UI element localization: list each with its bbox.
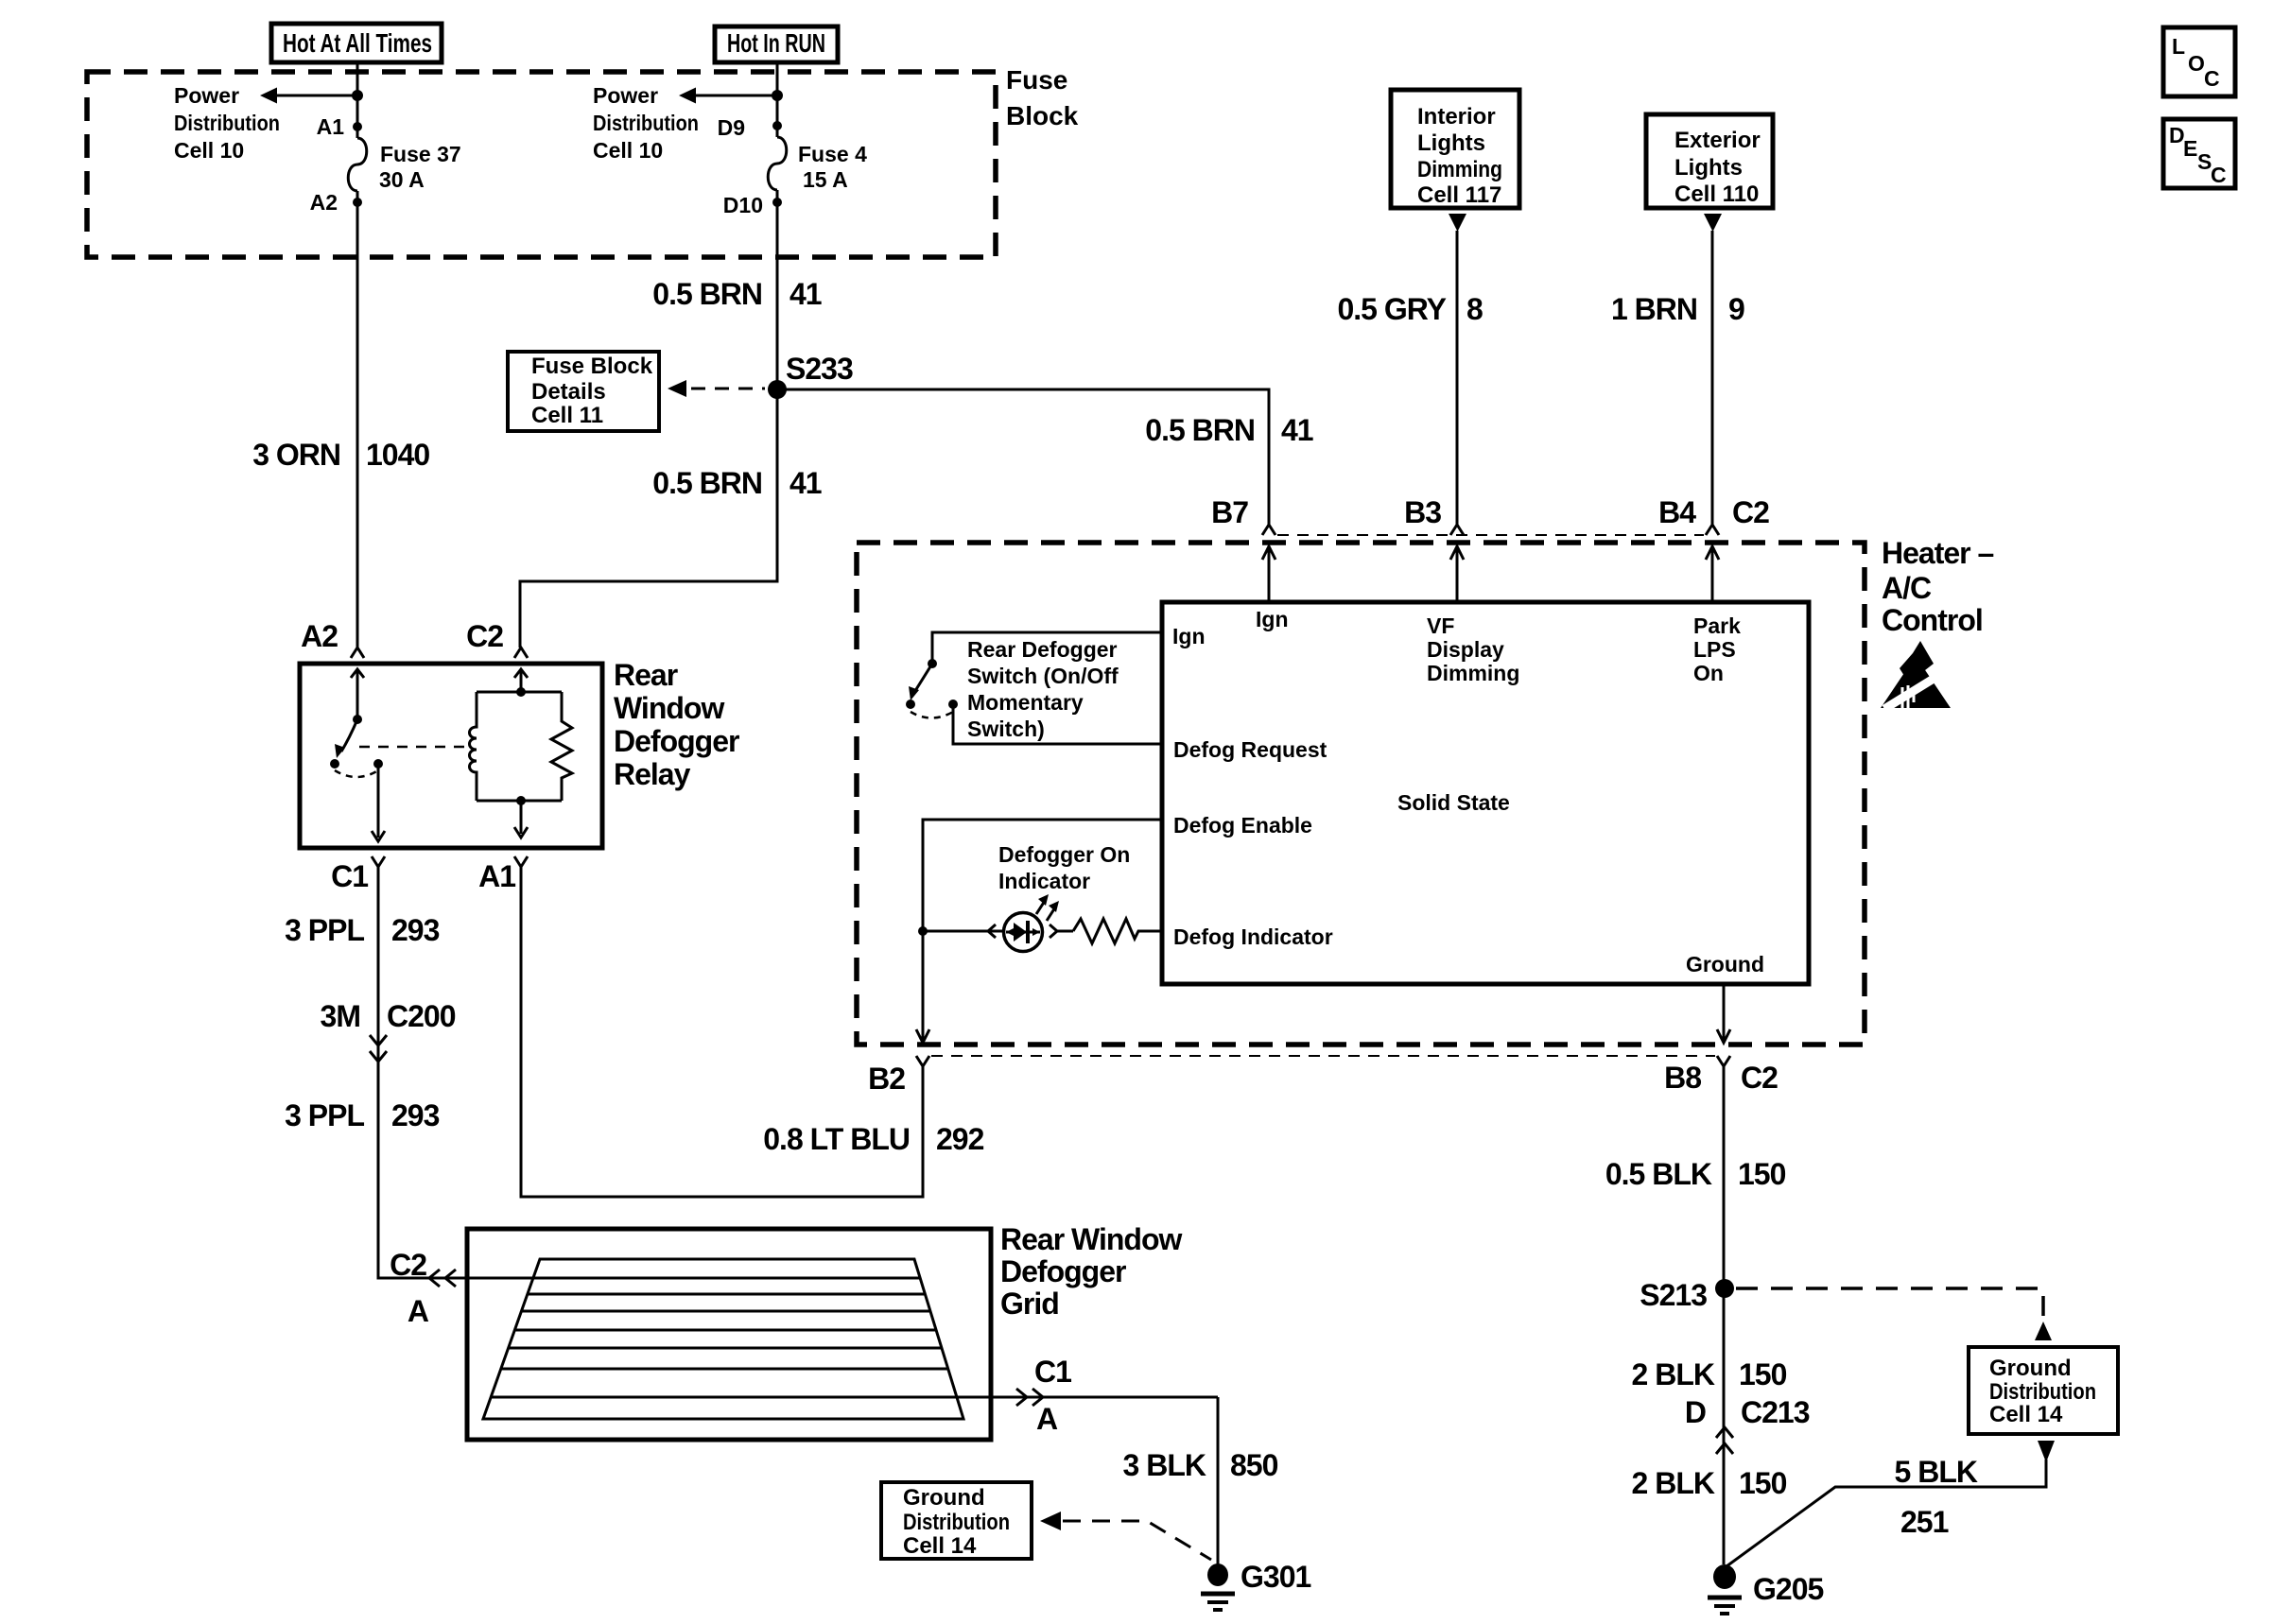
node: DESC legend box: [2163, 119, 2235, 188]
wire label 2 BLK 150 (upper): [1632, 1357, 1787, 1391]
node: Interior Lights Dimming Cell 117 callout: [1391, 90, 1519, 232]
svg-text:Cell 10: Cell 10: [593, 138, 663, 163]
wire label 0.5 BRN 41 above S233: [652, 277, 822, 311]
pin B2 connector chevron: [868, 1056, 929, 1096]
svg-text:Ign: Ign: [1172, 624, 1206, 648]
wire: interior lights dimming to B3: [1456, 231, 1459, 525]
arrows into solid state module (Ign, VF, Park): [1262, 546, 1719, 602]
fuse F4 15A: [718, 115, 867, 217]
node: Fuse Block Details callout: [508, 352, 765, 431]
svg-text:Heater –: Heater –: [1882, 536, 1994, 570]
svg-text:Rear Defogger: Rear Defogger: [967, 637, 1118, 662]
svg-text:A2: A2: [301, 619, 338, 653]
svg-text:S213: S213: [1640, 1278, 1707, 1312]
splice S233: [768, 352, 853, 399]
wire: Hot At All Times feed through fuse 37 down to relay A2: [356, 62, 359, 648]
svg-text:292: 292: [936, 1122, 984, 1156]
svg-text:150: 150: [1739, 1466, 1787, 1500]
svg-text:3 BLK: 3 BLK: [1123, 1448, 1206, 1482]
wire label 2 BLK 150 (lower): [1632, 1466, 1787, 1500]
rear defogger switch (on/off momentary): [906, 632, 1162, 744]
defogger on indicator LED and resistor: [918, 842, 1162, 952]
svg-text:Display: Display: [1427, 637, 1504, 662]
svg-text:Power: Power: [174, 83, 239, 108]
node: Hot At All Times label box: [271, 24, 442, 62]
svg-text:L: L: [2172, 34, 2185, 59]
fuse F37 30A: [310, 114, 461, 215]
relay mechanical linkage dashed: [359, 746, 467, 749]
ground G205: [1708, 1564, 1823, 1614]
svg-text:0.5 BRN: 0.5 BRN: [652, 466, 762, 500]
svg-text:Control: Control: [1882, 603, 1983, 637]
pin C1 connector chevron (relay): [331, 856, 385, 893]
node: power distribution takeoff (right): [593, 83, 783, 163]
svg-text:A/C: A/C: [1882, 571, 1932, 605]
svg-text:1040: 1040: [366, 438, 429, 472]
Heater A/C Control dashed boundary: [857, 536, 1994, 1045]
svg-text:Window: Window: [614, 691, 724, 725]
wire: Hot In RUN feed through fuse 4 down to S233 and relay C2: [520, 62, 777, 648]
rear window defogger grid box: [467, 1222, 1183, 1440]
svg-text:C: C: [2211, 163, 2227, 187]
wire: defog enable to B2: [916, 820, 1162, 1043]
svg-text:Park: Park: [1693, 613, 1741, 638]
svg-text:G205: G205: [1753, 1572, 1823, 1606]
pin B4 connector chevron, connector C2: [1658, 495, 1769, 535]
wire: S233 branch to B7: [777, 389, 1269, 525]
svg-text:A: A: [1036, 1402, 1058, 1436]
svg-text:0.5 BRN: 0.5 BRN: [652, 277, 762, 311]
wire 5 BLK 251 from ground distribution to G205: [1726, 1455, 2046, 1566]
grid element trapezoid: [483, 1259, 963, 1419]
wire label 0.8 LT BLU 292: [763, 1122, 983, 1156]
svg-text:Solid State: Solid State: [1397, 790, 1510, 815]
wire: relay C1 down to grid C2: [378, 867, 533, 1278]
svg-text:Cell 14: Cell 14: [903, 1533, 977, 1559]
relay switch contacts: [330, 669, 385, 841]
svg-text:Defog Enable: Defog Enable: [1173, 813, 1312, 838]
svg-text:D9: D9: [718, 115, 745, 140]
svg-text:Ground: Ground: [1989, 1356, 2072, 1381]
connector C213 pin D inline chevrons: [1685, 1395, 1810, 1454]
pin B8 connector chevron, connector C2: [1664, 1056, 1778, 1095]
wire label 3 BLK 850: [1123, 1448, 1278, 1482]
svg-text:0.8 LT BLU: 0.8 LT BLU: [763, 1122, 910, 1156]
wire: exterior lights to B4: [1711, 231, 1714, 525]
svg-text:Fuse 37: Fuse 37: [380, 142, 461, 166]
svg-text:8: 8: [1466, 292, 1483, 326]
splice S213: [1640, 1278, 2052, 1340]
svg-text:9: 9: [1728, 292, 1744, 326]
wire: grid C1 to G301: [1217, 1397, 1220, 1564]
svg-text:Cell 14: Cell 14: [1989, 1402, 2063, 1427]
svg-text:Lights: Lights: [1417, 130, 1485, 156]
svg-text:Switch): Switch): [967, 717, 1045, 741]
wire: B8 down to ground G205: [1723, 1066, 1726, 1564]
svg-text:Distribution: Distribution: [174, 111, 280, 135]
svg-text:Lights: Lights: [1674, 155, 1743, 181]
svg-text:C2: C2: [390, 1248, 426, 1282]
solid state module box: [1162, 602, 1809, 984]
connector C1 pin A chevrons (grid, inline double): [1016, 1355, 1071, 1436]
svg-text:C2: C2: [1741, 1061, 1778, 1095]
svg-text:Hot In RUN: Hot In RUN: [727, 28, 825, 58]
wire label 3 PPL 293 (lower): [285, 1098, 440, 1132]
svg-text:A1: A1: [317, 114, 345, 139]
svg-text:Rear: Rear: [614, 658, 678, 692]
svg-text:Cell 110: Cell 110: [1674, 181, 1759, 207]
svg-text:Distribution: Distribution: [1989, 1379, 2096, 1405]
svg-text:B8: B8: [1664, 1061, 1701, 1095]
wire: module ground to B8: [1717, 984, 1730, 1043]
svg-text:Fuse Block: Fuse Block: [531, 354, 653, 379]
svg-text:1 BRN: 1 BRN: [1611, 292, 1697, 326]
relay K: Rear Window Defogger Relay box: [300, 658, 739, 848]
svg-text:LPS: LPS: [1693, 637, 1736, 662]
svg-text:Dimming: Dimming: [1417, 157, 1502, 182]
connector C200 inline chevrons, pin 3M: [321, 999, 456, 1062]
svg-text:Grid: Grid: [1000, 1287, 1059, 1321]
svg-text:Defog Request: Defog Request: [1173, 737, 1327, 762]
svg-text:293: 293: [391, 1098, 440, 1132]
svg-text:Indicator: Indicator: [998, 869, 1090, 893]
node: Hot In RUN label box: [715, 26, 838, 62]
connector C2 boundary dashed line (bottom): [931, 1055, 1715, 1057]
svg-text:Ground: Ground: [1686, 952, 1764, 976]
svg-text:A1: A1: [478, 859, 515, 893]
svg-text:Power: Power: [593, 83, 658, 108]
wire label 1 BRN 9: [1611, 292, 1744, 326]
node: Exterior Lights Cell 110 callout: [1646, 114, 1773, 232]
svg-text:Block: Block: [1006, 101, 1079, 130]
svg-text:Interior: Interior: [1417, 104, 1496, 130]
grid lines: [491, 1278, 1218, 1397]
svg-text:C213: C213: [1741, 1395, 1810, 1429]
svg-text:41: 41: [1281, 413, 1313, 447]
svg-text:3 PPL: 3 PPL: [285, 913, 364, 947]
connector C2 boundary dashed line (top): [1277, 534, 1704, 536]
wire label 3 ORN 1040: [252, 438, 429, 472]
svg-text:150: 150: [1738, 1157, 1786, 1191]
svg-text:Details: Details: [531, 379, 606, 405]
svg-text:Fuse 4: Fuse 4: [798, 142, 867, 166]
pin C2 connector chevron (relay): [466, 619, 528, 658]
svg-text:Defogger: Defogger: [614, 724, 739, 758]
svg-text:41: 41: [789, 277, 822, 311]
svg-text:Exterior: Exterior: [1674, 128, 1761, 153]
pin B3 connector chevron: [1404, 495, 1464, 535]
wire label 0.5 BRN 41 below S233: [652, 466, 822, 500]
svg-text:C2: C2: [466, 619, 503, 653]
svg-text:Defogger: Defogger: [1000, 1254, 1126, 1288]
svg-text:B3: B3: [1404, 495, 1441, 529]
svg-text:Rear Window: Rear Window: [1000, 1222, 1183, 1256]
svg-text:Cell 11: Cell 11: [531, 403, 603, 428]
connector C2 pin A chevrons (grid, inline double): [390, 1248, 456, 1328]
wire label 3 PPL 293 (upper): [285, 913, 440, 947]
svg-text:0.5 GRY: 0.5 GRY: [1337, 292, 1446, 326]
svg-text:3 ORN: 3 ORN: [252, 438, 340, 472]
svg-text:C1: C1: [331, 859, 368, 893]
node: power distribution takeoff (left): [174, 83, 363, 163]
ground G301: [1201, 1560, 1310, 1610]
svg-text:850: 850: [1230, 1448, 1278, 1482]
svg-text:D: D: [1685, 1395, 1706, 1429]
relay coil and resistor in parallel: [470, 669, 573, 838]
svg-text:A: A: [408, 1294, 429, 1328]
svg-text:Cell 10: Cell 10: [174, 138, 244, 163]
svg-text:0.5 BLK: 0.5 BLK: [1605, 1157, 1712, 1191]
svg-text:D10: D10: [723, 193, 763, 217]
wire label 0.5 BRN 41 at B7: [1145, 413, 1313, 447]
pin B7 connector chevron: [1211, 495, 1275, 535]
pin A2 connector chevron (relay): [301, 619, 364, 658]
svg-text:C200: C200: [387, 999, 456, 1033]
svg-text:Hot At All Times: Hot At All Times: [283, 28, 432, 58]
svg-text:Ground: Ground: [903, 1485, 985, 1511]
svg-text:Ign: Ign: [1256, 607, 1289, 631]
svg-text:251: 251: [1900, 1505, 1949, 1539]
node: Ground Distribution Cell 14 callout (left): [881, 1482, 1211, 1560]
svg-text:2 BLK: 2 BLK: [1632, 1357, 1715, 1391]
svg-text:293: 293: [391, 913, 440, 947]
svg-text:3M: 3M: [321, 999, 360, 1033]
svg-text:C: C: [2204, 66, 2220, 91]
svg-text:41: 41: [789, 466, 822, 500]
svg-text:C2: C2: [1732, 495, 1769, 529]
svg-text:Distribution: Distribution: [903, 1510, 1010, 1535]
svg-text:A2: A2: [310, 190, 338, 215]
wire: relay A1 to B2: [521, 867, 923, 1197]
svg-text:2 BLK: 2 BLK: [1632, 1466, 1715, 1500]
pin A1 connector chevron (relay): [478, 856, 528, 893]
svg-text:S233: S233: [786, 352, 853, 386]
svg-text:3 PPL: 3 PPL: [285, 1098, 364, 1132]
svg-text:Fuse: Fuse: [1006, 65, 1067, 95]
node: Ground Distribution Cell 14 callout (right): [1969, 1347, 2118, 1462]
svg-text:5 BLK: 5 BLK: [1895, 1455, 1978, 1489]
svg-text:B7: B7: [1211, 495, 1248, 529]
svg-text:150: 150: [1739, 1357, 1787, 1391]
svg-text:Relay: Relay: [614, 757, 691, 791]
svg-text:Momentary: Momentary: [967, 690, 1084, 715]
svg-text:On: On: [1693, 661, 1724, 685]
svg-text:Defogger On: Defogger On: [998, 842, 1130, 867]
svg-text:G301: G301: [1241, 1560, 1310, 1594]
svg-text:30 A: 30 A: [379, 167, 425, 192]
svg-text:C1: C1: [1034, 1355, 1071, 1389]
svg-text:0.5 BRN: 0.5 BRN: [1145, 413, 1255, 447]
svg-text:Distribution: Distribution: [593, 111, 699, 135]
svg-text:E: E: [2183, 136, 2197, 161]
svg-text:Defog Indicator: Defog Indicator: [1173, 924, 1333, 949]
svg-text:VF: VF: [1427, 613, 1454, 638]
fuse block dashed boundary: [87, 65, 1079, 257]
wire label 0.5 GRY 8: [1337, 292, 1483, 326]
svg-text:Cell 117: Cell 117: [1417, 182, 1501, 208]
svg-text:Switch (On/Off: Switch (On/Off: [967, 664, 1119, 688]
svg-text:B2: B2: [868, 1062, 905, 1096]
wire label 0.5 BLK 150: [1605, 1157, 1786, 1191]
svg-text:O: O: [2188, 51, 2205, 76]
svg-text:B4: B4: [1658, 495, 1696, 529]
ESD sensitivity symbol: [1881, 641, 1951, 709]
svg-text:Dimming: Dimming: [1427, 661, 1519, 685]
svg-text:15 A: 15 A: [803, 167, 848, 192]
node: LOC legend box: [2163, 27, 2235, 96]
